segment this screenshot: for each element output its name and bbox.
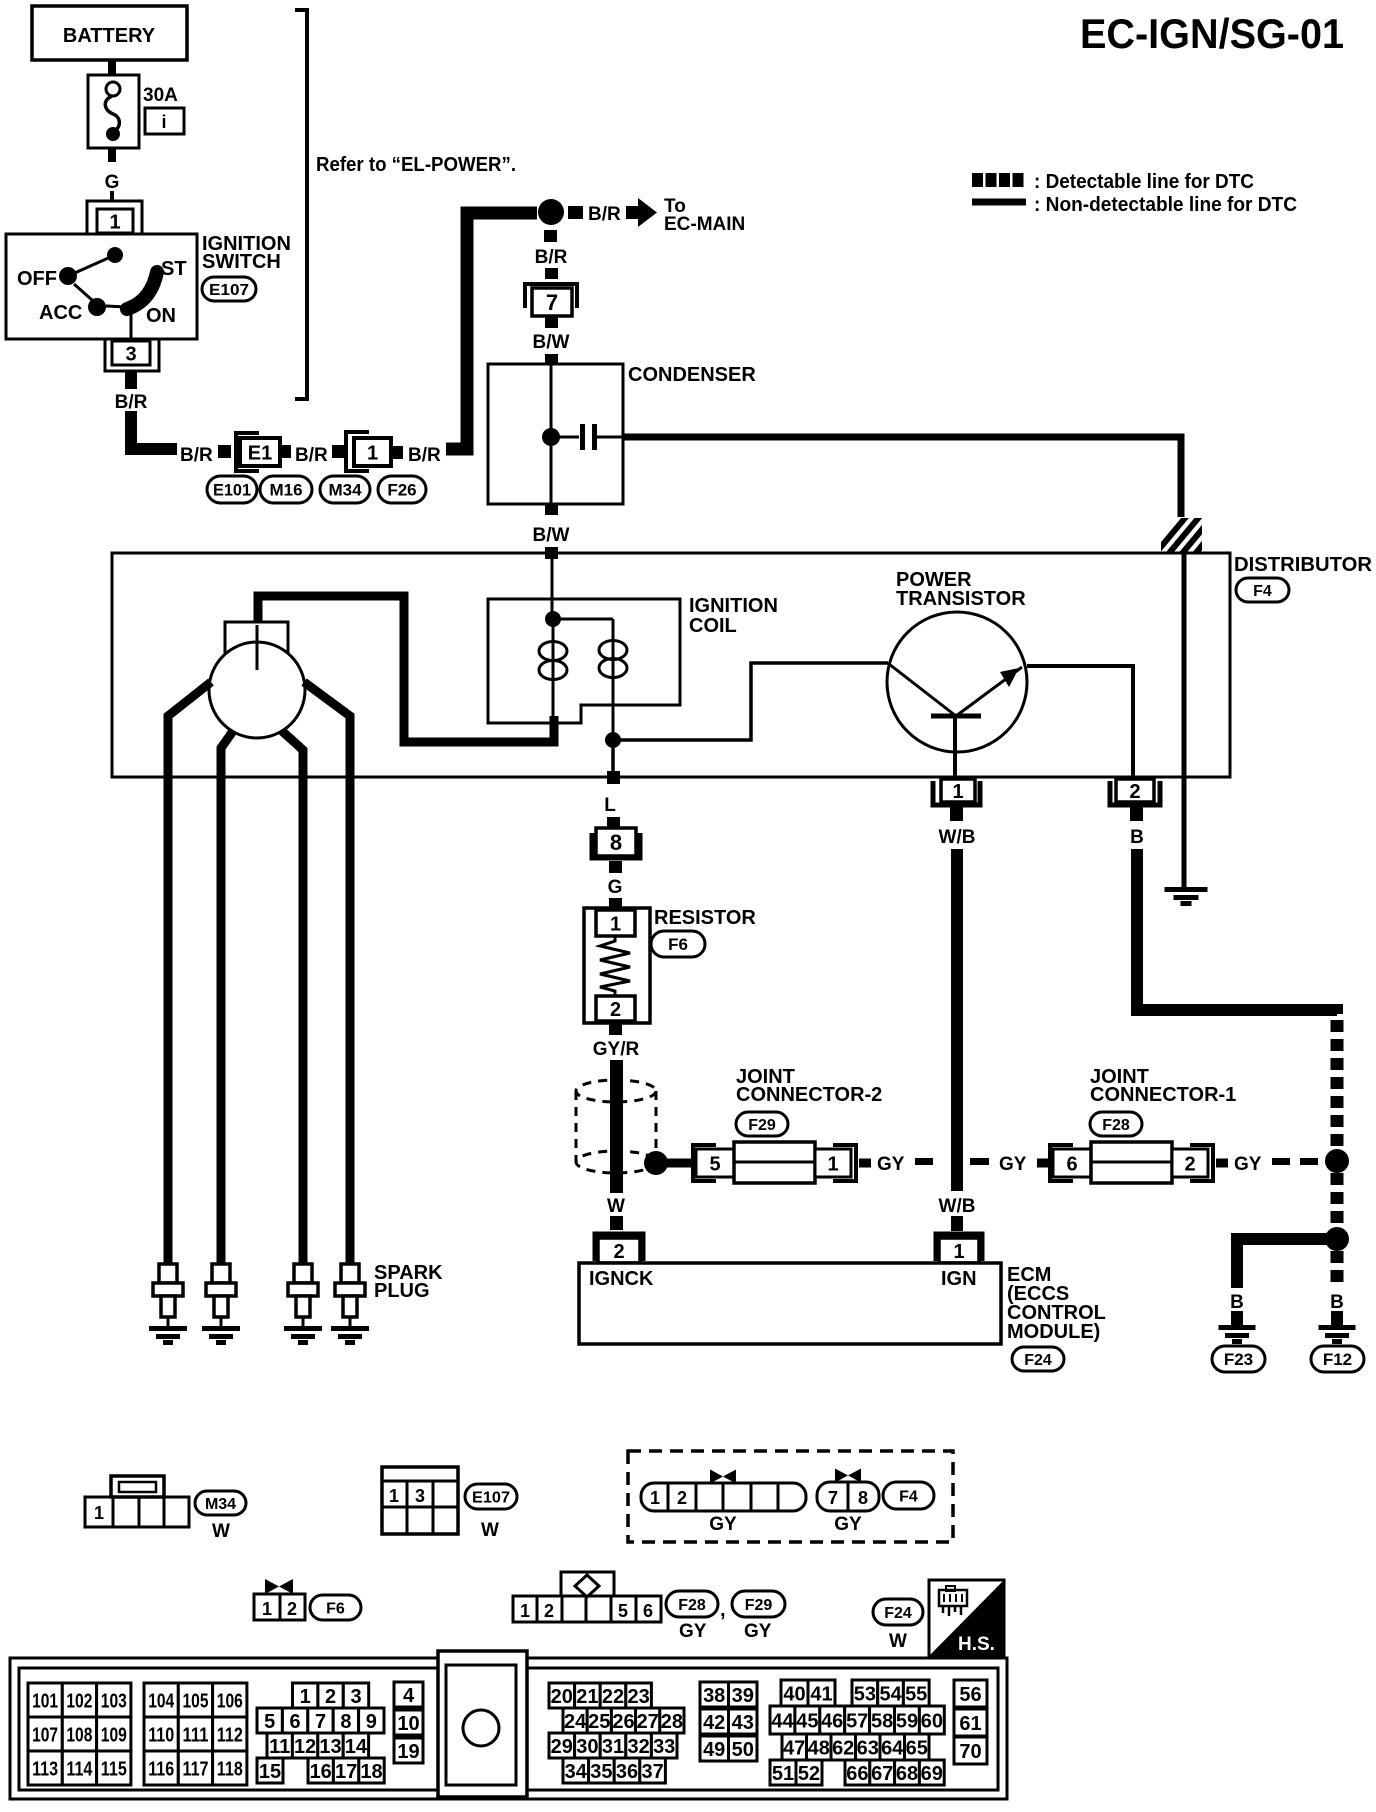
ECM pin group D 4-19 (394, 1682, 423, 1763)
svg-text:1: 1 (650, 1488, 660, 1508)
svg-text:ACC: ACC (39, 302, 82, 324)
svg-text:104: 104 (148, 1690, 175, 1712)
svg-text:20: 20 (551, 1686, 573, 1708)
svg-text:18: 18 (360, 1761, 382, 1783)
ignition switch label (202, 233, 291, 273)
wire B/W into coil (551, 553, 554, 619)
svg-text:B: B (1330, 1292, 1344, 1313)
svg-text:F26: F26 (387, 481, 416, 500)
svg-text:59: 59 (896, 1710, 918, 1732)
svg-text:12: 12 (294, 1736, 316, 1758)
shield junction node (644, 1151, 668, 1175)
wire dash above ECM pin 2 (610, 1216, 623, 1230)
spark plug 1 (149, 1264, 187, 1345)
coil primary winding (539, 619, 567, 723)
svg-text:26: 26 (612, 1711, 634, 1733)
svg-text:CONDENSER: CONDENSER (628, 364, 756, 386)
svg-text:53: 53 (854, 1683, 876, 1705)
svg-text:58: 58 (871, 1710, 893, 1732)
svg-text:8: 8 (610, 830, 622, 855)
svg-text:4: 4 (403, 1685, 415, 1707)
distributor rotor cap (209, 622, 305, 738)
svg-text:F29: F29 (748, 1117, 776, 1134)
wire dash below condenser (545, 504, 558, 515)
svg-text:116: 116 (148, 1758, 174, 1780)
svg-text:EC-IGN/SG-01: EC-IGN/SG-01 (1080, 10, 1344, 57)
spark plug 3 (284, 1264, 322, 1345)
svg-text:30A: 30A (143, 85, 178, 106)
svg-text:2: 2 (610, 999, 621, 1021)
svg-text:113: 113 (32, 1758, 58, 1780)
svg-text:OFF: OFF (17, 268, 57, 290)
wire dashed between nodes (1331, 1173, 1344, 1227)
svg-text:M34: M34 (205, 1496, 236, 1513)
svg-text:24: 24 (564, 1711, 587, 1733)
svg-text:36: 36 (616, 1761, 638, 1783)
svg-text:1: 1 (610, 913, 621, 935)
wire dash below connector 8 (609, 861, 622, 873)
ECM connector view outer frame (10, 1658, 1007, 1799)
svg-text:102: 102 (66, 1690, 92, 1712)
svg-text:64: 64 (881, 1737, 904, 1759)
connector id F29 (736, 1112, 788, 1136)
fuse id box i (145, 108, 184, 134)
svg-text:1: 1 (952, 781, 963, 803)
svg-text:1: 1 (109, 211, 120, 233)
svg-text:52: 52 (798, 1763, 820, 1785)
condenser junction node (542, 428, 560, 446)
face id M34 (195, 1491, 246, 1515)
svg-text:3: 3 (350, 1686, 361, 1708)
svg-text:IGNCK: IGNCK (589, 1268, 654, 1290)
svg-text:2: 2 (287, 1599, 297, 1619)
svg-text:SWITCH: SWITCH (202, 251, 281, 273)
wire dash above F12 ground (1331, 1311, 1343, 1325)
svg-text:7: 7 (828, 1488, 838, 1508)
svg-text:W: W (889, 1631, 907, 1652)
ignition switch E107 (6, 234, 197, 339)
joint connector-2 label (736, 1066, 882, 1106)
svg-text:DISTRIBUTOR: DISTRIBUTOR (1234, 554, 1373, 576)
wire transistor collector to pin 2 (1027, 666, 1133, 777)
svg-text:B/R: B/R (535, 247, 568, 268)
spark wire 1 (168, 682, 211, 1264)
connector face M34 (85, 1476, 189, 1527)
ignition coil box (488, 599, 680, 723)
svg-text:B/R: B/R (408, 445, 441, 466)
svg-text:22: 22 (602, 1686, 624, 1708)
svg-text:46: 46 (821, 1710, 843, 1732)
svg-text:114: 114 (66, 1758, 93, 1780)
svg-text:F4: F4 (899, 1488, 918, 1505)
connector 8 (592, 828, 640, 858)
svg-text:F24: F24 (1024, 1352, 1052, 1369)
svg-text:GY: GY (1234, 1154, 1262, 1175)
svg-text:44: 44 (771, 1710, 794, 1732)
wire dash GY 2 (970, 1158, 989, 1165)
svg-text:16: 16 (310, 1761, 332, 1783)
wire dash GY 4 (1300, 1158, 1318, 1165)
svg-text:54: 54 (879, 1683, 902, 1705)
svg-text:MODULE): MODULE) (1007, 1321, 1100, 1343)
svg-text:23: 23 (627, 1686, 649, 1708)
svg-text:E1: E1 (248, 442, 272, 464)
svg-text:38: 38 (703, 1685, 725, 1707)
svg-text:: Non-detectable line for DTC: : Non-detectable line for DTC (1034, 194, 1297, 216)
svg-text:29: 29 (551, 1736, 573, 1758)
wire dash above condenser (545, 354, 558, 365)
svg-text:GY: GY (877, 1154, 905, 1175)
wire W/B to ECM (951, 849, 963, 1191)
svg-text:1: 1 (389, 1486, 399, 1506)
svg-text:35: 35 (590, 1761, 612, 1783)
capacitor C (558, 424, 623, 450)
spark plug label (374, 1262, 443, 1302)
connector id F4 (1236, 578, 1289, 602)
svg-text:8: 8 (340, 1711, 351, 1733)
connector 7 (525, 284, 577, 316)
power transistor Q (887, 612, 1027, 752)
svg-text:B/W: B/W (533, 332, 570, 353)
arrow to EC-MAIN (626, 198, 657, 227)
spark plug 2 (202, 1264, 240, 1345)
svg-text:RESISTOR: RESISTOR (654, 907, 756, 929)
wire condenser to distributor case (623, 437, 1181, 517)
svg-text:9: 9 (366, 1711, 377, 1733)
svg-text:1: 1 (827, 1153, 838, 1175)
svg-text:112: 112 (217, 1724, 243, 1746)
svg-text:B/R: B/R (588, 204, 621, 225)
svg-text:66: 66 (846, 1763, 868, 1785)
svg-text:B: B (1230, 1292, 1244, 1313)
wire dash below connector 7 (545, 316, 558, 328)
svg-text:CONNECTOR-1: CONNECTOR-1 (1090, 1084, 1236, 1106)
connector id E107 (202, 277, 256, 301)
F4 face pins 7-8 (817, 1482, 879, 1511)
ECM connector center section (438, 1651, 527, 1797)
svg-text:M34: M34 (328, 481, 362, 500)
face id F24 (873, 1599, 923, 1625)
wire coil node to transistor base (613, 663, 888, 740)
svg-text:,: , (720, 1599, 726, 1621)
svg-text:L: L (604, 795, 616, 816)
wire stub right of JC1 (1216, 1159, 1228, 1168)
svg-text:15: 15 (259, 1761, 281, 1783)
svg-text:B/R: B/R (180, 445, 213, 466)
wire GY/R through shield (610, 1060, 623, 1193)
svg-text:39: 39 (732, 1685, 754, 1707)
svg-text:6: 6 (1066, 1153, 1077, 1175)
svg-text:115: 115 (101, 1758, 127, 1780)
svg-text:1: 1 (300, 1686, 311, 1708)
distributor pin 1 connector (933, 779, 980, 805)
ECM pin group F 38-50 (700, 1682, 757, 1761)
svg-text:48: 48 (808, 1737, 830, 1759)
F4 face keyway 1 (710, 1470, 736, 1484)
legend detectable line sample (972, 173, 1026, 187)
wire dash to EC-MAIN (568, 206, 583, 219)
svg-text:PLUG: PLUG (374, 1280, 430, 1302)
svg-text:BATTERY: BATTERY (63, 25, 156, 47)
svg-text:GY/R: GY/R (593, 1039, 640, 1060)
ECM pin group A 101-115 (28, 1683, 131, 1785)
svg-text:31: 31 (602, 1736, 624, 1758)
svg-text:111: 111 (183, 1724, 209, 1746)
wire dash before connector 1 (332, 445, 344, 458)
svg-text:7: 7 (315, 1711, 326, 1733)
svg-text:EC-MAIN: EC-MAIN (664, 214, 745, 235)
svg-text:GY: GY (679, 1621, 707, 1642)
svg-text:117: 117 (183, 1758, 209, 1780)
svg-text:CONNECTOR-2: CONNECTOR-2 (736, 1084, 882, 1106)
svg-text:5: 5 (264, 1711, 275, 1733)
wire dash below resistor (609, 1023, 622, 1035)
svg-text:6: 6 (643, 1601, 653, 1621)
svg-text:70: 70 (959, 1741, 981, 1763)
svg-text:101: 101 (32, 1690, 58, 1712)
joint connector-2 F29 (693, 1142, 856, 1183)
ECM pin 1 connector (936, 1234, 982, 1263)
coil output junction node (605, 732, 621, 748)
svg-text:68: 68 (896, 1763, 918, 1785)
svg-text:41: 41 (810, 1683, 832, 1705)
ground id F12 (1311, 1346, 1364, 1372)
ground F23 (1219, 1325, 1256, 1344)
condenser internal wire (550, 364, 553, 504)
svg-text:47: 47 (783, 1737, 805, 1759)
connector id F6 (651, 931, 705, 957)
svg-text:B/R: B/R (295, 445, 328, 466)
svg-text:32: 32 (627, 1736, 649, 1758)
face id F29 (732, 1591, 785, 1617)
svg-text:27: 27 (637, 1711, 659, 1733)
svg-text:2: 2 (325, 1686, 336, 1708)
wire G to connector 1 (110, 191, 114, 202)
svg-text:W/B: W/B (939, 827, 976, 848)
wire coil node down (611, 740, 615, 772)
svg-text:M16: M16 (269, 481, 302, 500)
svg-text:5: 5 (618, 1601, 628, 1621)
wire dash after E1 (280, 445, 291, 458)
svg-text:55: 55 (905, 1683, 927, 1705)
svg-text:2: 2 (677, 1488, 687, 1508)
svg-text:1: 1 (262, 1599, 272, 1619)
svg-text:103: 103 (101, 1690, 127, 1712)
power transistor label (896, 569, 1026, 610)
svg-text:2: 2 (544, 1601, 554, 1621)
ECM pin group C 1-18 (257, 1683, 384, 1783)
svg-text:118: 118 (217, 1758, 243, 1780)
svg-text:51: 51 (772, 1763, 794, 1785)
face id F4 (883, 1482, 934, 1509)
svg-text:B/R: B/R (115, 392, 148, 413)
ECM connector view inner frame (19, 1668, 998, 1790)
svg-text:W/B: W/B (939, 1196, 976, 1217)
svg-text:E107: E107 (472, 1489, 510, 1506)
svg-text:57: 57 (846, 1710, 868, 1732)
svg-text:34: 34 (565, 1761, 588, 1783)
wire dash at distributor top edge (545, 547, 558, 559)
ECM pin group E 20-37 (549, 1683, 684, 1783)
svg-text:2: 2 (1129, 781, 1140, 803)
svg-text:E101: E101 (213, 481, 251, 500)
connector face F4 dashed box (628, 1451, 953, 1542)
wire dash above ECM pin 1 (951, 1216, 963, 1231)
svg-text:40: 40 (783, 1683, 805, 1705)
svg-text:IGN: IGN (941, 1268, 977, 1290)
svg-text:W: W (607, 1196, 625, 1217)
wire B from pin 2 (1137, 849, 1337, 1014)
ignition coil label (689, 595, 778, 637)
svg-text:65: 65 (906, 1737, 928, 1759)
svg-text:45: 45 (796, 1710, 818, 1732)
svg-text:10: 10 (397, 1713, 419, 1735)
wire dash GY 1 (915, 1158, 933, 1165)
legend non-detectable line sample (972, 199, 1026, 206)
wire coil to rotor (thick) (258, 596, 554, 742)
wire case to ground (1182, 551, 1187, 887)
svg-text:i: i (161, 112, 166, 132)
svg-text:28: 28 (661, 1711, 683, 1733)
svg-text:1: 1 (520, 1601, 530, 1621)
wire stub below pin 2 (1130, 807, 1143, 821)
ground F12 (1319, 1325, 1356, 1344)
wire dash at distributor bottom edge (607, 771, 620, 784)
junction node right 2 (1325, 1227, 1349, 1251)
svg-text:G: G (105, 172, 120, 193)
spark wire 2 (221, 731, 233, 1264)
wire dash GY 3 (1272, 1158, 1290, 1165)
svg-text:GY: GY (999, 1154, 1027, 1175)
svg-text:106: 106 (217, 1690, 243, 1712)
svg-text:GY: GY (744, 1621, 772, 1642)
wire B/R up to junction (446, 213, 537, 449)
wire stub below pin 1 (950, 807, 963, 821)
svg-text:14: 14 (345, 1736, 368, 1758)
svg-text:F24: F24 (884, 1605, 912, 1622)
wire B/R switch to E1 (131, 411, 177, 449)
wire dash above connector 8 (607, 817, 620, 828)
svg-text:F28: F28 (1102, 1117, 1130, 1134)
svg-text:TRANSISTOR: TRANSISTOR (896, 588, 1026, 610)
module id F24 (1012, 1347, 1064, 1371)
svg-text:69: 69 (921, 1763, 943, 1785)
svg-text:56: 56 (959, 1684, 981, 1706)
svg-text:50: 50 (732, 1739, 754, 1761)
connector face F6 (254, 1594, 305, 1620)
connector face E107 (382, 1467, 458, 1534)
svg-text:7: 7 (546, 290, 558, 315)
svg-text:B/W: B/W (533, 525, 570, 546)
face id F28 (666, 1591, 718, 1617)
F4 face pins 1-2 (641, 1483, 806, 1511)
fuse 30A (88, 75, 139, 148)
wire dash after connector 1 (391, 446, 403, 459)
svg-text:42: 42 (703, 1712, 725, 1734)
shield hatch connection (1150, 512, 1230, 576)
svg-text:5: 5 (709, 1153, 720, 1175)
wire B dashed down right (1331, 1020, 1344, 1149)
svg-text:49: 49 (703, 1739, 725, 1761)
connector id M34 (320, 476, 370, 503)
connector id M16 (260, 476, 312, 503)
svg-text:ST: ST (161, 258, 187, 280)
wire stub left of JC1 (1037, 1159, 1050, 1168)
shield (dashed cylinder) (576, 1080, 656, 1173)
svg-text:B: B (1130, 827, 1144, 848)
to EC-MAIN text (664, 196, 745, 235)
ignition switch pin 3 connector (105, 339, 159, 371)
svg-text:2: 2 (1184, 1153, 1195, 1175)
connector id E101 (207, 476, 257, 503)
spark wire 4 (304, 682, 350, 1264)
svg-text:W: W (212, 1521, 230, 1542)
svg-text:37: 37 (641, 1761, 663, 1783)
svg-text:25: 25 (588, 1711, 610, 1733)
wire dash above connector 7 (545, 268, 558, 279)
svg-text:ON: ON (146, 305, 176, 327)
connector E1 (236, 433, 280, 471)
svg-text:F4: F4 (1253, 583, 1272, 600)
coil secondary winding (599, 619, 627, 740)
spark wire 3 (282, 731, 303, 1264)
svg-text:43: 43 (732, 1712, 754, 1734)
svg-text:E107: E107 (209, 282, 249, 299)
wire battery to fuse (108, 60, 116, 76)
joint connector-1 F28 (1050, 1142, 1213, 1183)
svg-text:63: 63 (857, 1737, 879, 1759)
junction node B/R (538, 199, 564, 225)
ECM label (1007, 1264, 1106, 1343)
ECM pin group H 56-70 (954, 1680, 987, 1764)
ECM pin group G 40-69 (770, 1680, 944, 1785)
svg-text:11: 11 (269, 1736, 290, 1758)
svg-text:3: 3 (125, 343, 136, 365)
svg-text:1: 1 (94, 1503, 104, 1523)
face id F6 (310, 1595, 361, 1620)
face id E107 (465, 1484, 517, 1509)
wire node to joint connector 2 (666, 1159, 691, 1168)
wire transistor emitter down (953, 718, 957, 777)
svg-text:3: 3 (415, 1486, 425, 1506)
svg-text:G: G (608, 877, 623, 898)
svg-text:8: 8 (858, 1488, 868, 1508)
wire stub right of JC2 (859, 1159, 871, 1168)
coil junction node (545, 611, 561, 627)
svg-text:60: 60 (921, 1710, 943, 1732)
wire node to F23 ground (1237, 1239, 1331, 1288)
svg-text:W: W (481, 1520, 499, 1541)
distributor pin 2 connector (1110, 779, 1160, 805)
F4 face keyway 2 (835, 1469, 861, 1483)
ground id F23 (1212, 1346, 1265, 1372)
distributor box (112, 553, 1230, 777)
ECM pin 2 connector (595, 1234, 643, 1263)
svg-text:17: 17 (335, 1761, 357, 1783)
junction node right 1 (1325, 1149, 1349, 1173)
svg-text:: Detectable line for DTC: : Detectable line for DTC (1034, 171, 1254, 193)
svg-text:21: 21 (576, 1686, 598, 1708)
svg-text:33: 33 (653, 1736, 675, 1758)
battery (32, 6, 187, 60)
wire dash below junction (544, 230, 557, 242)
connector id F28 (1090, 1112, 1142, 1136)
wire dash before E1 (218, 445, 231, 458)
distributor case ground (1165, 887, 1208, 906)
wire dash above F23 ground (1231, 1311, 1243, 1325)
svg-text:19: 19 (397, 1741, 419, 1763)
H.S. data link box (929, 1580, 1004, 1656)
